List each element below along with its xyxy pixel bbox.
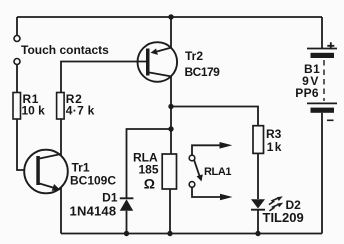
transistor Tr2 emitter arrowhead (PNP, points to base)	[151, 49, 158, 55]
LED D2 triangle	[251, 199, 265, 208]
transistor Tr1 circle	[24, 150, 68, 194]
wire R2 top to Tr2 base	[61, 62, 146, 93]
wire D2 to bottom rail	[257, 210, 259, 234]
svg-text:Touch contacts: Touch contacts	[21, 43, 109, 57]
contact top lead with arrow	[192, 145, 220, 155]
diode D1 cathode bar	[120, 197, 134, 199]
contact bottom arrowhead	[220, 194, 233, 201]
wire relay coil to bottom rail	[169, 189, 171, 234]
touch contact terminal (top)	[14, 36, 20, 42]
resistor R2	[57, 93, 65, 120]
svg-text:RLA1: RLA1	[204, 166, 231, 178]
wire D1 to bottom rail	[126, 211, 128, 234]
junction dot D1 bottom	[124, 231, 129, 236]
battery cell1 thick plate	[311, 53, 335, 58]
wire Tr2 emitter to top rail	[170, 17, 172, 48]
wire R1 to Tr1 base	[17, 119, 25, 170]
svg-text:BC179: BC179	[185, 65, 221, 79]
resistor R3	[253, 126, 264, 154]
transistor Tr1 emitter arrowhead	[52, 184, 61, 191]
junction dot coil bottom	[167, 231, 172, 236]
relay coil RLA box	[162, 154, 176, 189]
svg-text:1 k: 1 k	[267, 140, 282, 154]
svg-text:BC109C: BC109C	[70, 174, 116, 188]
LED D2 emission arrow 1 head	[277, 203, 283, 208]
wire R3 to D2	[257, 153, 259, 199]
transistor Tr1 base bar	[36, 156, 40, 185]
contact top arrowhead	[220, 142, 233, 149]
battery plus sign	[327, 42, 334, 49]
transistor Tr1 emitter line with arrow	[40, 184, 55, 189]
svg-text:Tr1: Tr1	[72, 161, 90, 175]
diode D1 triangle	[120, 199, 133, 211]
transistor Tr2 base bar	[146, 49, 150, 76]
svg-text:10 k: 10 k	[22, 104, 46, 118]
wire bottom rail	[61, 233, 322, 235]
relay contact RLA1 terminal bottom	[189, 182, 195, 188]
transistor Tr2 emitter line	[157, 48, 171, 52]
transistor Tr2 collector line	[150, 73, 172, 77]
LED D2 cathode bar	[251, 209, 265, 211]
battery inner dashed link	[323, 60, 325, 101]
svg-text:Ω: Ω	[144, 175, 155, 191]
battery minus sign	[327, 119, 334, 121]
wire battery positive lead	[321, 17, 323, 48]
wire Tr2 collector down	[170, 76, 172, 154]
svg-text:PP6: PP6	[295, 86, 319, 100]
svg-text:R3: R3	[266, 127, 282, 141]
transistor Tr2 circle	[138, 42, 178, 82]
LED D2 emission arrow 1	[269, 205, 278, 211]
wire top supply rail	[17, 16, 322, 18]
junction node collector to R3 branch	[168, 104, 173, 109]
svg-text:TIL209: TIL209	[263, 210, 304, 225]
junction dot top rail	[168, 14, 173, 19]
LED D2 emission arrow 2	[269, 198, 278, 204]
wire battery negative lead	[321, 113, 323, 234]
LED D2 emission arrow 2 head	[277, 196, 283, 201]
wire to D1 branch	[127, 129, 172, 198]
transistor Tr1 collector line	[40, 154, 62, 159]
wire left drop to touch contact	[16, 17, 18, 35]
touch contact terminal (bottom)	[14, 59, 20, 65]
wire contact to R1	[16, 65, 18, 93]
svg-text:4·7 k: 4·7 k	[66, 104, 95, 118]
resistor R1	[13, 93, 21, 120]
battery cell2 long plate	[307, 102, 337, 104]
svg-text:1N4148: 1N4148	[70, 203, 117, 218]
junction node collector to D1 branch	[168, 126, 173, 131]
battery cell1 long plate	[307, 48, 337, 50]
contact blade arrowhead	[197, 174, 203, 181]
contact bottom lead with arrow	[192, 187, 221, 197]
svg-text:Tr2: Tr2	[185, 49, 203, 63]
wire R2 bottom to Tr1 collector	[60, 119, 62, 155]
relay contact RLA1 terminal top	[189, 155, 195, 161]
wire Tr1 emitter down to bottom rail	[60, 188, 62, 234]
battery cell2 thick plate	[311, 108, 335, 113]
contact moving blade	[194, 160, 199, 176]
wire to R3 branch	[171, 107, 258, 126]
junction dot D2 bottom	[255, 231, 260, 236]
